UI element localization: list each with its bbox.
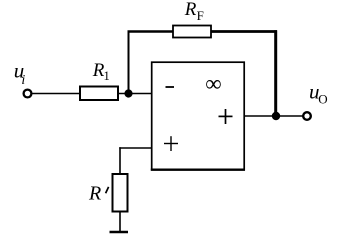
op-amp U1 body (152, 62, 245, 170)
resistor R' (113, 174, 128, 212)
svg-text:i: i (21, 73, 25, 88)
wire feedback left vertical (128, 31, 130, 94)
svg-text:∞: ∞ (205, 71, 221, 96)
wire feedback top right horizontal (211, 30, 277, 33)
wire down to R' (119, 147, 121, 174)
output terminal u_O (303, 112, 311, 120)
svg-text:F: F (197, 8, 204, 23)
svg-text:R: R (88, 183, 101, 205)
op-amp output plus sign (219, 115, 233, 117)
op-amp non-inverting input plus sign (164, 143, 178, 145)
svg-text:O: O (318, 92, 327, 107)
resistor R1 (80, 87, 118, 101)
wire feedback right vertical (274, 30, 277, 116)
op-amp bottom edge thick (151, 168, 245, 170)
svg-text:R: R (184, 0, 197, 20)
op-amp inverting input minus sign (166, 86, 175, 88)
node junction at inverting input (124, 89, 132, 97)
wire input terminal to R1 (32, 93, 80, 95)
wire R' to ground (119, 212, 121, 233)
input terminal u_i (24, 90, 32, 98)
svg-text:1: 1 (104, 69, 110, 83)
resistor RF (173, 26, 211, 38)
ground (110, 231, 129, 233)
wire R1 to op-amp inverting input (118, 93, 152, 95)
wire op-amp output (244, 115, 302, 117)
node junction at output (272, 112, 280, 120)
wire feedback top left horizontal (128, 30, 174, 33)
wire op-amp non-inverting input horizontal (119, 147, 151, 149)
